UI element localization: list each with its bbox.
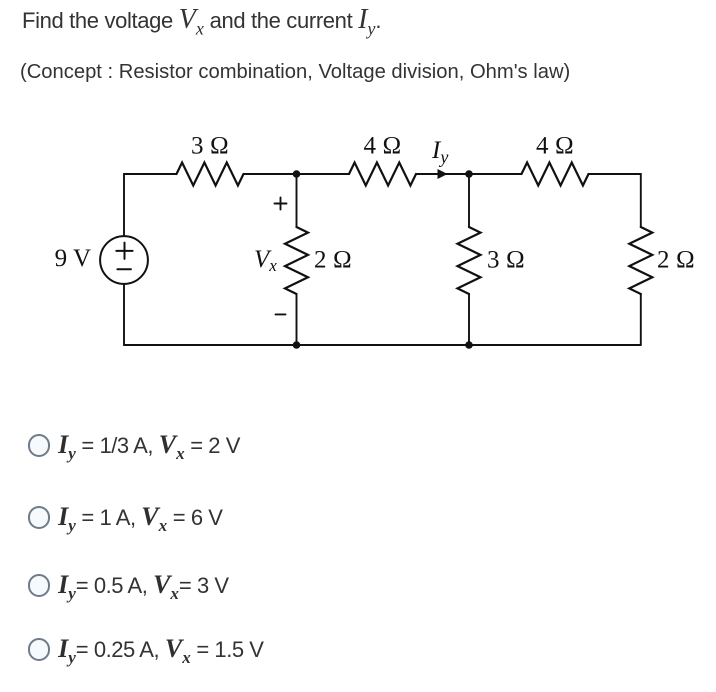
wire: 4ohm to node B (with Iy arrow) xyxy=(416,173,469,175)
svg-text:4 Ω: 4 Ω xyxy=(536,133,574,160)
option 1 xyxy=(28,427,240,461)
wire: node A down to resistor 2ohm (Vx) xyxy=(296,174,298,227)
svg-text:4 Ω: 4 Ω xyxy=(364,133,402,160)
voltage source minus sign xyxy=(117,268,130,270)
wire: 3ohm to node A xyxy=(244,173,350,175)
svg-text:2 Ω: 2 Ω xyxy=(657,247,695,274)
svg-text:2 Ω: 2 Ω xyxy=(314,247,352,274)
question line 2 (concept) xyxy=(20,61,570,84)
plus label of Vx xyxy=(275,203,287,205)
wire: 3ohm vertical to bottom node xyxy=(468,294,470,345)
voltage source 9V circle xyxy=(100,236,148,284)
minus label of Vx xyxy=(276,313,286,315)
svg-text:3 Ω: 3 Ω xyxy=(487,247,525,274)
wire: Vx resistor to bottom node xyxy=(296,294,298,345)
svg-text:Iy: Iy xyxy=(431,137,448,167)
wire: source bottom to bottom wire xyxy=(123,284,125,345)
resistor 2ohm vertical (Vx) xyxy=(285,227,308,294)
resistor 3ohm vertical xyxy=(458,227,481,294)
svg-text:3 Ω: 3 Ω xyxy=(191,133,229,160)
option 4 xyxy=(28,631,264,665)
bottom wire xyxy=(124,344,641,346)
wire top-left: source top to resistor 3ohm xyxy=(124,174,177,236)
resistor 3ohm horizontal xyxy=(177,163,244,186)
node B' (bottom) xyxy=(465,341,473,349)
wire: right resistor to bottom-right corner xyxy=(640,294,642,345)
node A' (bottom) xyxy=(293,341,301,349)
wire: node B to resistor 4ohm right xyxy=(469,173,522,175)
resistor 2ohm vertical right xyxy=(629,227,652,294)
svg-text:9 V: 9 V xyxy=(55,245,91,272)
option 2 xyxy=(28,499,223,533)
svg-text:Vx: Vx xyxy=(254,246,277,275)
wire: node B down to resistor 3ohm vertical xyxy=(468,174,470,227)
node B (top) xyxy=(465,170,473,178)
question line 1 xyxy=(22,4,381,40)
wire: 4ohm right to top-right corner xyxy=(589,174,641,227)
option 3 xyxy=(28,567,229,601)
node A (top) xyxy=(293,170,301,178)
resistor 4ohm horizontal (right) xyxy=(522,163,589,186)
voltage source plus sign xyxy=(116,250,132,252)
current arrow Iy xyxy=(438,169,448,179)
resistor 4ohm horizontal (left) xyxy=(349,163,416,186)
